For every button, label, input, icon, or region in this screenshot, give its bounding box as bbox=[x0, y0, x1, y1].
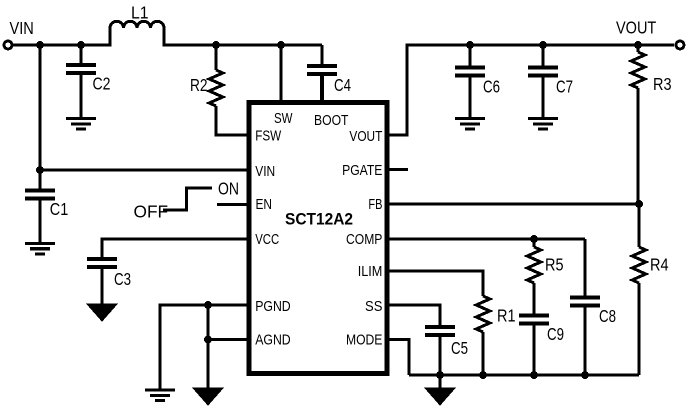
svg-text:L1: L1 bbox=[131, 3, 149, 23]
svg-text:VCC: VCC bbox=[255, 231, 279, 248]
svg-text:PGATE: PGATE bbox=[342, 162, 382, 179]
svg-text:VIN: VIN bbox=[10, 18, 34, 38]
svg-text:C8: C8 bbox=[599, 306, 616, 326]
svg-text:C2: C2 bbox=[93, 74, 111, 94]
svg-text:VOUT: VOUT bbox=[616, 18, 657, 38]
svg-text:FB: FB bbox=[368, 196, 382, 213]
svg-text:R3: R3 bbox=[653, 74, 672, 94]
svg-text:C1: C1 bbox=[50, 199, 68, 219]
svg-text:C7: C7 bbox=[556, 76, 573, 96]
svg-text:C6: C6 bbox=[483, 76, 500, 96]
svg-text:VOUT: VOUT bbox=[349, 128, 382, 145]
svg-text:R2: R2 bbox=[190, 75, 208, 95]
svg-text:R1: R1 bbox=[497, 306, 516, 326]
svg-text:ILIM: ILIM bbox=[358, 263, 383, 280]
svg-text:C9: C9 bbox=[547, 324, 564, 344]
svg-text:AGND: AGND bbox=[255, 332, 291, 349]
svg-text:BOOT: BOOT bbox=[314, 112, 349, 129]
svg-text:SS: SS bbox=[365, 298, 382, 315]
svg-text:FSW: FSW bbox=[255, 128, 282, 145]
svg-text:EN: EN bbox=[256, 196, 273, 213]
svg-text:R5: R5 bbox=[545, 255, 564, 275]
svg-text:SCT12A2: SCT12A2 bbox=[285, 209, 353, 228]
svg-text:ON: ON bbox=[218, 179, 239, 199]
svg-text:C4: C4 bbox=[334, 75, 351, 95]
svg-text:VIN: VIN bbox=[255, 163, 275, 180]
svg-text:COMP: COMP bbox=[346, 231, 382, 248]
svg-text:OFF: OFF bbox=[134, 202, 169, 222]
svg-text:R4: R4 bbox=[650, 255, 669, 275]
svg-text:PGND: PGND bbox=[255, 298, 291, 315]
svg-text:MODE: MODE bbox=[346, 332, 382, 349]
svg-text:C5: C5 bbox=[451, 338, 468, 358]
svg-text:C3: C3 bbox=[114, 269, 131, 289]
svg-text:SW: SW bbox=[274, 110, 293, 127]
